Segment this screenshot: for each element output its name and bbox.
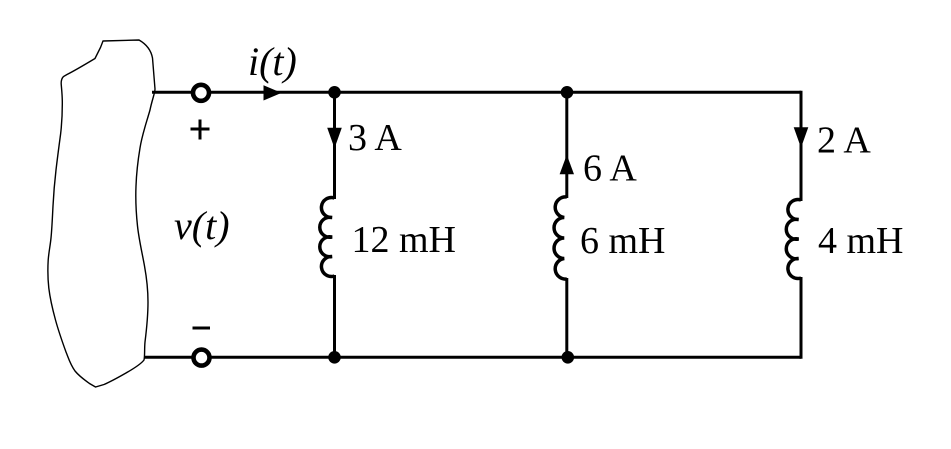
svg-text:3 A: 3 A <box>348 117 402 159</box>
inductor L3 4 mH coil <box>786 200 801 279</box>
arrow 3 A (downward current arrow) <box>327 128 342 148</box>
svg-text:4 mH: 4 mH <box>818 220 904 262</box>
svg-text:v(t): v(t) <box>174 203 230 248</box>
wire branch 1 top lead <box>333 92 336 199</box>
node B bottom (junction dot, branch 2) <box>562 351 575 364</box>
node A bottom (junction dot, branch 1) <box>328 351 341 364</box>
wire branch 3 bottom lead <box>800 277 803 359</box>
wire branch 1 bottom lead <box>333 275 336 357</box>
arrow 2 A (downward current arrow) <box>794 127 809 148</box>
node A top (junction dot, branch 1) <box>328 86 341 99</box>
svg-text:i(t): i(t) <box>248 39 297 84</box>
arrow i(t) on top wire <box>264 85 282 100</box>
svg-text:6 mH: 6 mH <box>580 220 666 262</box>
svg-text:2 A: 2 A <box>817 120 871 162</box>
wire branch 3 top lead (right side vertical) <box>800 91 803 201</box>
+ polarity sign <box>191 120 210 140</box>
wire top (from source to top-right corner) <box>152 91 801 94</box>
svg-text:12 mH: 12 mH <box>352 219 457 261</box>
source blob (hand-drawn source outline) <box>48 40 155 387</box>
- polarity sign <box>193 327 211 330</box>
terminal top (open circle) <box>193 85 209 101</box>
terminal bottom (open circle) <box>194 350 210 366</box>
node B top (junction dot, branch 2) <box>561 86 574 99</box>
svg-text:6 A: 6 A <box>583 148 637 190</box>
inductor L2 6 mH coil <box>554 197 567 279</box>
wire bottom (from source to bottom-right corner) <box>144 356 801 359</box>
inductor L1 12 mH coil <box>320 198 335 277</box>
wire branch 2 bottom lead <box>565 278 568 357</box>
arrow 6 A (upward current arrow) <box>560 155 574 174</box>
wire branch 2 top lead <box>565 92 568 198</box>
